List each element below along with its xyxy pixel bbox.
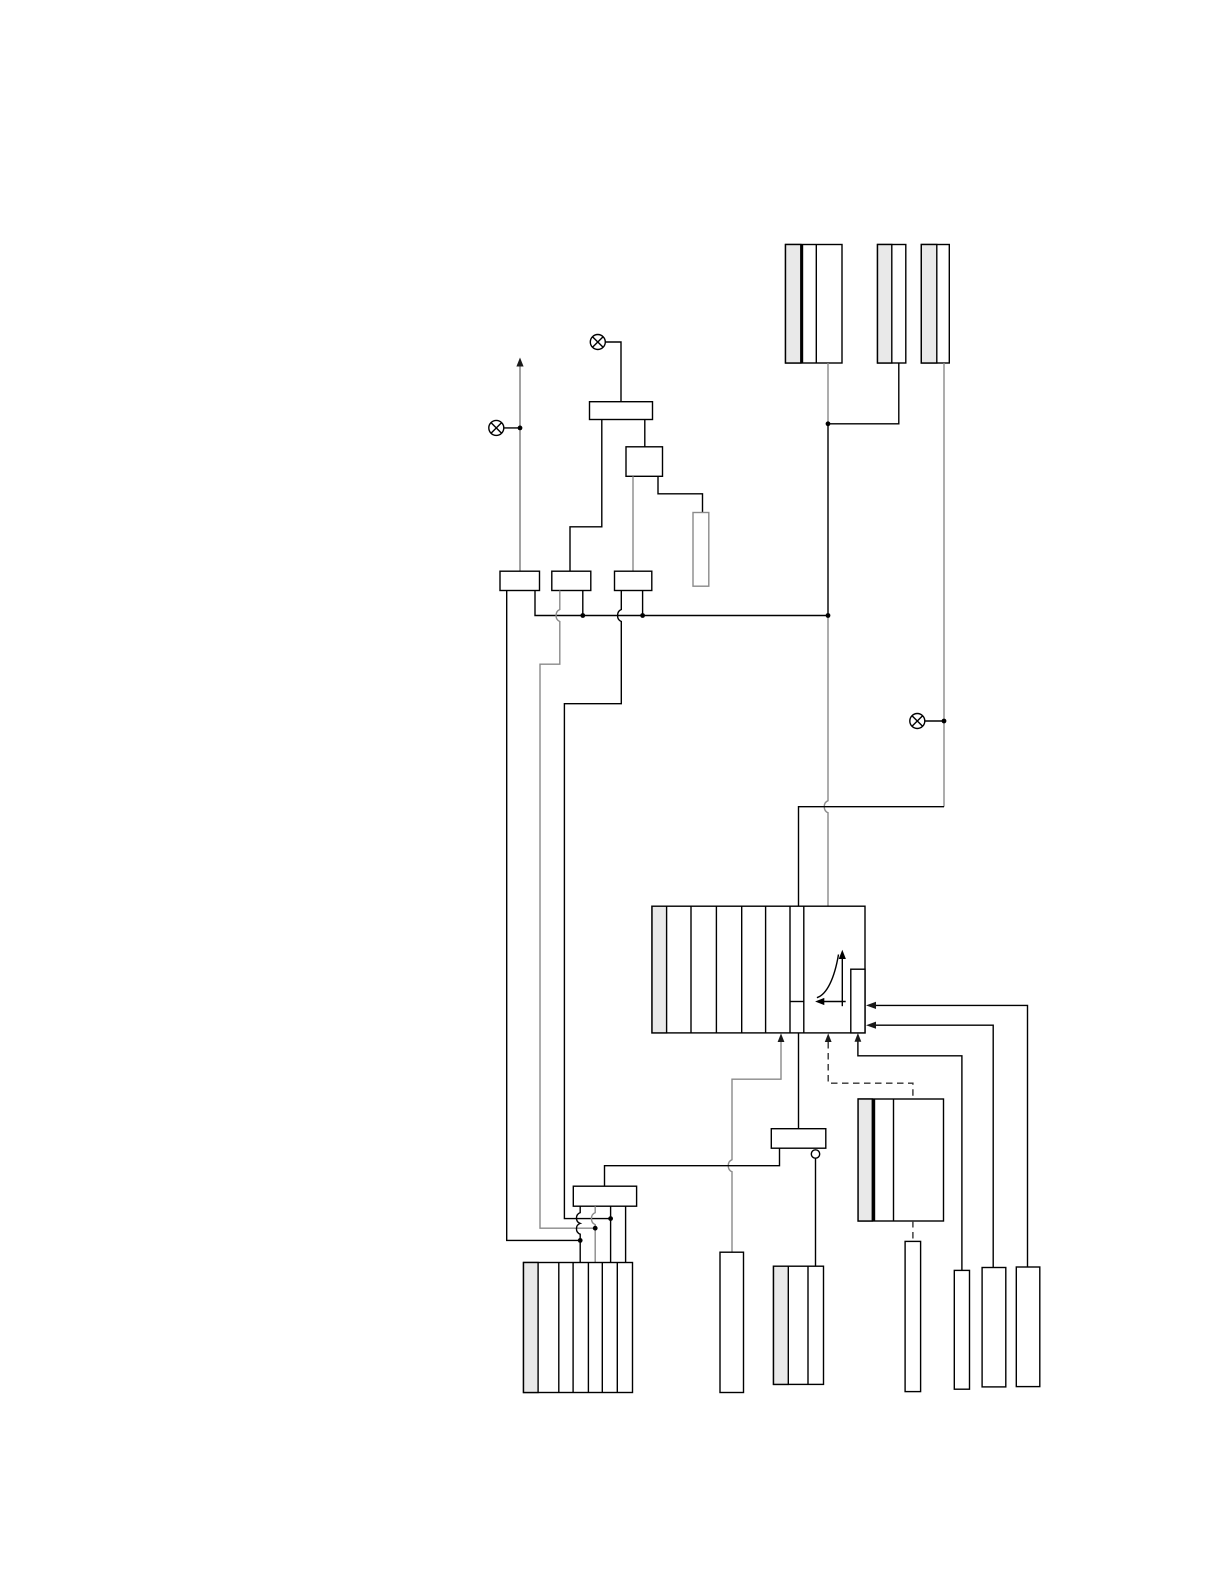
wire A3 output 4 to big box M1: [625, 1206, 627, 1262]
wire lamp L1 to node: [504, 427, 520, 429]
dashed wire from box U3 up into central box bottom: [828, 1042, 913, 1099]
wire A line lower segment (gray, hops C-branch) to central box top: [824, 616, 828, 907]
box K1 (small box row left): [500, 571, 540, 590]
dashed wire U3 bottom to rect T6: [912, 1221, 914, 1241]
arrowhead up into central box (dashed): [825, 1033, 832, 1042]
wire A3 output 1 (hops two feeders) to big box M1: [576, 1206, 580, 1262]
central box U1 (multi-column with graph): [652, 906, 865, 1033]
wire K1 right output to bus: [535, 591, 828, 616]
rect T6 (tall rect under U3): [905, 1241, 921, 1391]
lamp L1 (left indicator): [489, 420, 504, 435]
wire block C output down (gray): [943, 363, 945, 807]
node dot feeder R1: [608, 1216, 613, 1221]
rect T1 (small tall rectangle): [693, 513, 709, 587]
wire gray feedback from rect T2 up into central box bottom (with arrow): [728, 1041, 781, 1252]
relay A1 (wide box upper): [590, 402, 653, 420]
graph icon horizontal arrowhead: [815, 998, 824, 1005]
rect T4 (bottom right tall rect 2): [982, 1268, 1006, 1387]
relay A3 (wide box lower): [573, 1186, 636, 1206]
wire K3 right output to bus: [642, 591, 644, 616]
graph icon vertical arrowhead: [839, 950, 846, 959]
arrowhead up into central box (gray feedback): [778, 1033, 785, 1042]
box M2 (bottom 3-column): [774, 1266, 824, 1384]
wire central box bottom to box U2 top: [798, 1033, 800, 1129]
wire A line mid segment to bus node: [827, 424, 829, 616]
wire up-arrow feeder (gray vertical to box K1): [519, 365, 521, 571]
block A (top 3-column block): [786, 245, 843, 364]
box U2 (wide box with inverter bubble): [771, 1129, 826, 1149]
graph icon (characteristic curve): [817, 955, 846, 1007]
arrowhead up at top of feeder: [516, 358, 523, 367]
block C (top 2-column block): [921, 245, 949, 364]
node dot at lamp L1 tap: [518, 426, 523, 431]
wire lamp L3 to C line: [925, 720, 944, 722]
right box U3 (3-column block): [858, 1099, 943, 1221]
lamp L3 (right indicator): [910, 714, 925, 729]
arrowhead left into central box edge (top): [866, 1002, 876, 1009]
inverter bubble on U2 output: [811, 1150, 819, 1158]
wire lamp L2 to relay A1: [605, 342, 621, 402]
box K2 (small box row middle): [552, 571, 591, 590]
wire from rect T4 left into central box right edge (with arrow): [876, 1025, 993, 1267]
wire A3 output 3 to big box M1: [610, 1206, 612, 1262]
wire relay A1 left output to box K2: [570, 420, 602, 572]
rect T3 (bottom right tall rect 1): [954, 1270, 969, 1389]
rect T2 (mid tall rectangle): [720, 1252, 744, 1392]
arrowhead left into central box edge (bottom): [866, 1022, 876, 1029]
wire from rect T3 up into central box bottom (with arrow): [858, 1042, 962, 1271]
big box M1 (bottom-left multi-column): [524, 1263, 633, 1393]
wire box A2 left output to box K3 (gray): [632, 476, 634, 571]
block B (top 2-column block): [878, 245, 906, 364]
wire relay A1 right output to box A2: [644, 420, 646, 447]
wire K1 left output long down to node R3: [507, 591, 581, 1241]
node dot feeder R2: [593, 1226, 598, 1231]
node dot bus-K2: [580, 613, 585, 618]
node dot bus-right: [826, 613, 831, 618]
wire U2 left output down-left to relay A3 (hops gray feedback line): [605, 1148, 780, 1186]
box K3 (small box row right): [615, 571, 652, 590]
rect T5 (bottom right tall rect 3): [1016, 1267, 1040, 1387]
node dot feeder R3: [578, 1238, 583, 1243]
node dot A-B join: [826, 421, 831, 426]
wire A3 output 2 (gray, hops one feeder) to big box M1: [591, 1206, 595, 1262]
wire block A output down (gray upper): [827, 363, 829, 424]
wire block B output down-left to A line: [828, 363, 899, 424]
wire K2 right output to bus: [582, 591, 584, 616]
wire K3 left output long down (hops bus) to node R1: [564, 591, 621, 1219]
wire K2 left output long down (gray, hops bus) to node R2: [540, 591, 595, 1229]
wire U2 bubble output down to box M2: [815, 1158, 817, 1266]
arrowhead up into central box (right): [855, 1033, 862, 1042]
sub-rect inside central box right: [851, 969, 865, 1033]
node dot bus-K3: [640, 613, 645, 618]
node dot lamp L3 tap: [942, 719, 947, 724]
wire box A2 right output to rect T1: [658, 476, 703, 512]
wire from rect T5 left into central box right edge (with arrow): [876, 1005, 1028, 1267]
lamp L2 (top indicator): [590, 335, 605, 350]
box A2 (small square): [626, 447, 663, 477]
wire C line turn to central box top: [799, 807, 945, 907]
